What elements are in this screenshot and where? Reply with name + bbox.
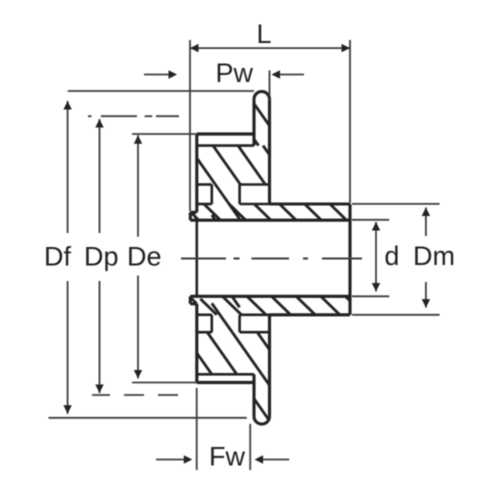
svg-text:Dp: Dp [84, 241, 119, 271]
svg-text:L: L [257, 19, 272, 49]
svg-text:d: d [384, 241, 399, 271]
svg-text:Dm: Dm [413, 241, 455, 271]
svg-text:Df: Df [44, 241, 71, 271]
svg-text:De: De [127, 241, 162, 271]
svg-text:Fw: Fw [209, 442, 245, 472]
svg-text:Pw: Pw [216, 58, 254, 88]
